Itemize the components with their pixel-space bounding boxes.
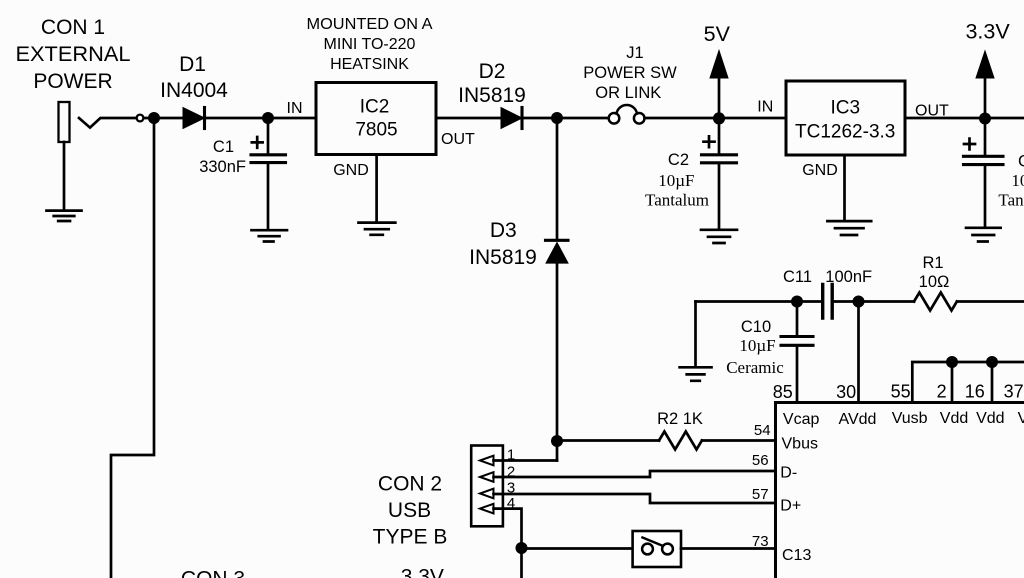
svg-text:3.3V: 3.3V [965,20,1010,44]
svg-text:IN5819: IN5819 [469,246,537,269]
svg-text:7805: 7805 [355,120,397,141]
svg-text:POWER SW: POWER SW [583,64,677,82]
svg-text:D-: D- [780,465,797,482]
svg-text:Vbus: Vbus [782,436,818,453]
diode D1 [183,108,205,129]
C3 plus sign [964,139,975,150]
svg-text:C2: C2 [668,151,689,169]
svg-text:330nF: 330nF [199,158,246,176]
ground IC3 [827,221,871,235]
svg-text:TC1262-3.3: TC1262-3.3 [795,122,895,143]
svg-text:10µF: 10µF [658,171,694,190]
svg-text:56: 56 [752,452,769,469]
node jack tip open circle [137,115,144,122]
capacitor C11 [823,285,833,319]
node AVdd junction [853,296,865,308]
svg-text:10Ω: 10Ω [919,273,950,291]
svg-text:CON 2: CON 2 [378,473,442,496]
ground C3 [966,228,1001,242]
svg-text:10µF: 10µF [1011,171,1024,190]
node Vdd pin2 junction [946,356,958,368]
connector CON1 jack body [59,102,70,142]
svg-text:J1: J1 [626,44,643,62]
svg-text:C10: C10 [741,318,771,336]
svg-text:IC2: IC2 [360,97,390,118]
svg-text:IN: IN [287,100,303,117]
wire 3.3V distribution rail [912,362,1024,402]
svg-text:Vusb: Vusb [892,410,928,427]
svg-text:2: 2 [937,382,947,402]
svg-text:54: 54 [754,422,771,439]
label CON3 partial [181,565,444,578]
svg-text:55: 55 [891,382,911,402]
svg-text:POWER: POWER [33,70,112,93]
svg-text:5V: 5V [704,22,731,46]
C2 plus sign [704,136,715,147]
svg-text:OR LINK: OR LINK [595,84,661,102]
svg-text:R1: R1 [922,254,943,272]
wire D3 cathode down to Vbus rail [556,263,559,461]
ground C2 [701,230,737,243]
svg-text:CON 1: CON 1 [41,16,105,39]
IC2 7805 regulator [316,83,436,155]
wire IC2 OUT to D2 [436,117,501,120]
svg-text:C13: C13 [782,547,811,564]
svg-text:CON 3: CON 3 [181,568,245,578]
svg-text:Vcap: Vcap [783,411,820,428]
svg-text:D+: D+ [780,497,801,514]
wire IC3 GND pin [843,155,846,221]
C1 plus sign [252,137,263,148]
wire input junction down-left long run [111,121,154,578]
diode D2 [501,108,522,129]
wire IC2 GND pin [375,155,378,223]
node C10 junction [791,296,803,308]
CON2 pin 3 triangle [480,489,494,499]
diode D3 [556,118,559,240]
capacitor C10 [796,302,799,336]
ground IC2 [359,223,396,235]
svg-text:C3: C3 [1018,153,1024,171]
svg-text:57: 57 [752,486,769,503]
ground C1 [252,230,288,241]
wire CON2 pin4 shield down [494,509,522,578]
CON2 pin 1 triangle [480,456,494,466]
node D3 branch junction [551,112,563,124]
capacitor C2 [718,121,721,154]
node 5V junction [713,112,725,124]
wire CON2 pin2 to D- [494,471,776,477]
jumper J1 switch [609,113,620,124]
svg-text:GND: GND [333,162,369,179]
ceramic rail: ground riser [694,302,697,367]
wire AVdd pin 30 [857,302,860,402]
wire CON1 jack sleeve to ground [63,142,66,211]
ground C10 rail [680,367,712,381]
IC1 microcontroller box [776,403,1024,578]
svg-text:IN5819: IN5819 [458,84,526,107]
svg-text:MINI TO-220: MINI TO-220 [324,36,416,53]
svg-text:Tantalum: Tantalum [645,191,709,210]
power 3.3V arrow [984,76,987,115]
svg-text:Tantalum: Tantalum [998,191,1024,210]
svg-text:V: V [1018,410,1024,427]
resistor R2 [557,439,659,442]
node Vdd pin16 junction [986,356,998,368]
CON2 pin 4 triangle [480,504,494,514]
capacitor C3 [984,121,987,155]
svg-text:OUT: OUT [441,131,475,148]
wire D2 to J1 [522,117,609,120]
wire jack tip contact [79,118,136,128]
node C1 junction [262,112,274,124]
node shield junction [516,542,528,554]
svg-text:100nF: 100nF [825,268,872,286]
node Vbus junction [551,435,563,447]
CON2 pin 2 triangle [480,472,494,482]
svg-text:R2 1K: R2 1K [657,410,703,428]
wire ground to C11 [696,300,823,303]
svg-text:IC3: IC3 [831,98,861,119]
svg-text:Ceramic: Ceramic [726,358,784,377]
svg-text:10µF: 10µF [739,336,775,355]
wire CON2 pin1 to Vbus [494,459,558,462]
svg-text:GND: GND [802,162,838,179]
node 3.3V junction [979,113,991,125]
svg-text:C1: C1 [213,138,234,156]
svg-text:Vdd: Vdd [976,410,1004,427]
svg-text:30: 30 [836,382,856,402]
svg-text:AVdd: AVdd [839,411,877,428]
connector CON1 label [16,16,131,93]
svg-text:37: 37 [1004,382,1024,402]
svg-text:D2: D2 [479,60,506,83]
connector CON2 USB body [471,446,503,527]
svg-text:TYPE B: TYPE B [373,526,448,549]
svg-text:IN: IN [757,99,773,116]
wire Vdd pin 16 [991,362,994,402]
wire IC3 OUT to right edge [905,117,1024,120]
svg-text:IN4004: IN4004 [160,79,228,102]
wire Vdd pin 2 [951,362,954,402]
resistor R1 [914,293,957,311]
svg-text:16: 16 [965,382,985,402]
svg-text:3.3V: 3.3V [401,565,444,578]
wire CON2 pin3 to D+ [494,494,776,503]
svg-text:D3: D3 [490,219,517,242]
svg-text:USB: USB [388,499,431,522]
svg-text:HEATSINK: HEATSINK [330,56,409,73]
svg-text:Vdd: Vdd [940,410,968,427]
wire J1 to IC3 IN [645,117,786,120]
wire to D1 anode [144,117,183,120]
wire switch to pin 73 [681,547,775,550]
IC3 TC1262 regulator [786,81,905,155]
capacitor C1 [267,121,270,154]
ground CON1 [47,211,82,221]
wire D1 to IC2 IN [206,117,317,120]
svg-text:EXTERNAL: EXTERNAL [16,43,131,66]
power 5V arrow [718,76,721,115]
svg-text:C11: C11 [783,268,812,286]
wire shield to switch [522,547,633,550]
switch SW1 box [633,531,681,567]
node input junction [148,112,160,124]
svg-text:85: 85 [773,382,793,402]
svg-text:MOUNTED ON A: MOUNTED ON A [307,16,433,33]
svg-text:D1: D1 [179,53,206,76]
